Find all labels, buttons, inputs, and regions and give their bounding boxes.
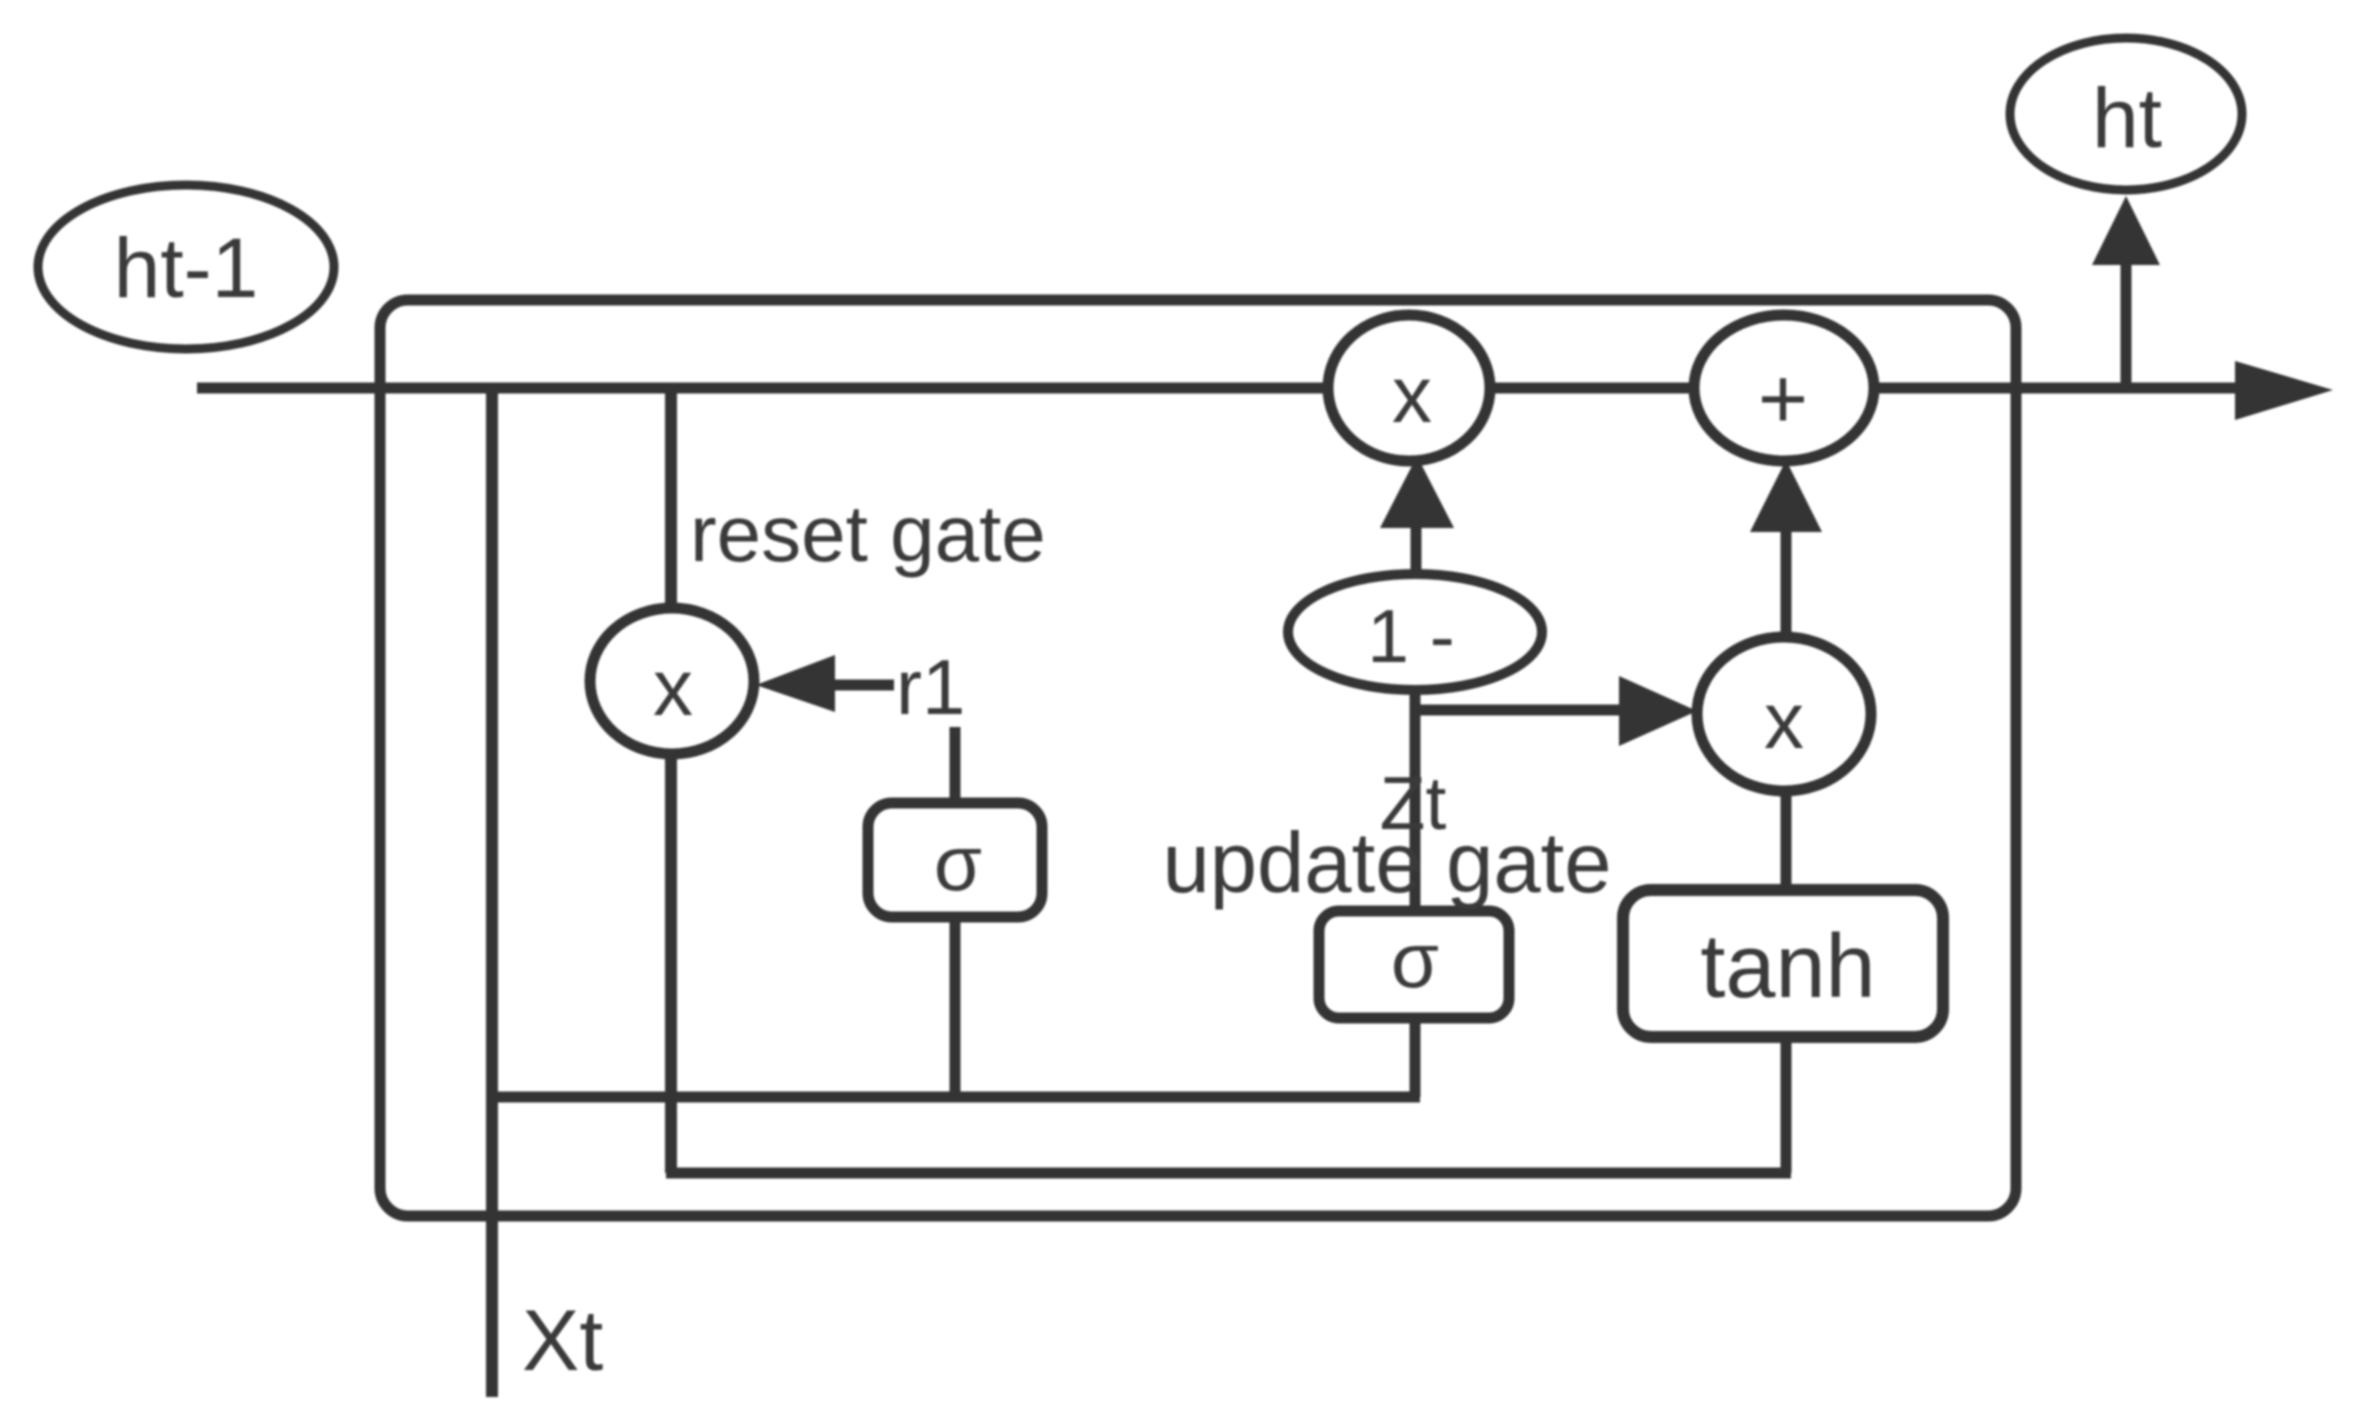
svg-text:Xt: Xt	[522, 1293, 603, 1389]
wire: vertical branch up to ht	[2121, 262, 2132, 388]
svg-text:x: x	[653, 643, 693, 732]
gate box sigma (update gate)	[1319, 911, 1509, 1018]
svg-text:σ: σ	[1391, 916, 1439, 1004]
gate box sigma (reset gate)	[868, 803, 1042, 917]
node ht ellipse	[2010, 38, 2242, 190]
operator circle + (add)	[1694, 315, 1874, 461]
gate box tanh	[1623, 890, 1943, 1037]
wire: bottom line B (reset path to tanh)	[666, 1168, 1791, 1179]
svg-text:update gate: update gate	[1162, 816, 1611, 911]
wire: reset-path vertical (through reset x circle)	[665, 388, 677, 1173]
svg-text:ht: ht	[2092, 71, 2162, 165]
operator circle x (reset multiply)	[590, 608, 754, 754]
GRU cell body box	[380, 300, 2016, 1216]
operator circle x (candidate multiply)	[1697, 637, 1871, 791]
arrowhead: up into ht	[2092, 196, 2160, 265]
wire: vertical through tanh box	[1781, 791, 1792, 1173]
svg-text:x: x	[1392, 350, 1432, 439]
wire+arrowhead: 1- up into top x circle	[1411, 520, 1422, 578]
node ht-1 ellipse	[38, 185, 334, 349]
node 1- ellipse	[1288, 574, 1542, 690]
svg-text:ht-1: ht-1	[114, 221, 259, 315]
svg-text:x: x	[1764, 676, 1804, 765]
arrowhead: main line output right	[2235, 361, 2333, 420]
wire: main horizontal ht-1 to ht line	[197, 383, 2260, 394]
wire+arrowhead: r1 left into reset x circle	[830, 680, 894, 691]
svg-text:r1: r1	[896, 643, 965, 731]
wire: Xt vertical line	[486, 388, 498, 1397]
svg-text:+: +	[1758, 351, 1808, 447]
wire+arrowhead: Zt branch right into right x circle	[1410, 705, 1630, 716]
svg-text:tanh: tanh	[1700, 917, 1875, 1017]
wire: vertical through reset sigma box	[950, 727, 961, 1097]
operator circle x (top, forget multiply)	[1328, 315, 1490, 461]
wire: bottom line A (Xt to update sigma)	[487, 1092, 1420, 1103]
svg-text:1 -: 1 -	[1367, 594, 1455, 678]
svg-text:reset gate: reset gate	[690, 489, 1046, 578]
svg-text:σ: σ	[934, 819, 982, 907]
wire+arrowhead: right x circle up into plus circle	[1781, 525, 1792, 640]
wire: vertical through update sigma box (Zt line)	[1410, 691, 1421, 1097]
